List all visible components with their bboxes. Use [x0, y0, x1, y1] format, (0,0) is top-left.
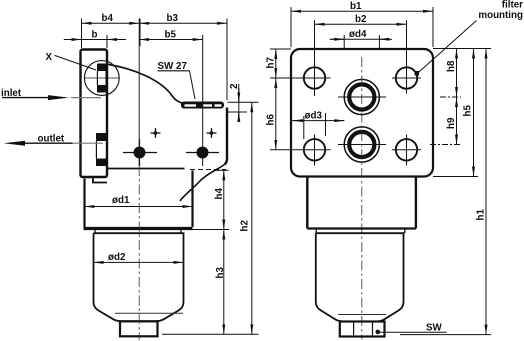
vertical centerline right view: [361, 57, 363, 340]
svg-text:mounting: mounting: [478, 10, 523, 21]
filter head left edge: [83, 179, 85, 228]
dimension b2: [314, 20, 316, 96]
neck ring right view: [316, 230, 405, 234]
drain plug (side view): [120, 321, 158, 336]
body bottom edge: [107, 168, 185, 170]
outlet port boss (hatched): [96, 133, 107, 141]
svg-text:X: X: [46, 52, 53, 63]
dimension h8: [456, 49, 458, 98]
svg-text:ød3: ød3: [305, 111, 323, 122]
body transition S-curve: [180, 165, 225, 202]
svg-text:h6: h6: [266, 114, 277, 126]
svg-text:filter: filter: [502, 0, 523, 11]
bolt hole 2: [197, 147, 209, 159]
svg-text:h7: h7: [266, 57, 277, 69]
bottom reference line: [162, 333, 259, 335]
leader X: [55, 55, 96, 70]
svg-text:h4: h4: [214, 188, 225, 200]
bolt hole 1: [134, 147, 146, 159]
dimension b1: [290, 7, 292, 47]
dimension b5: [202, 35, 204, 166]
bowl inner bottom line: [115, 312, 183, 314]
svg-text:h9: h9: [446, 117, 457, 129]
svg-text:b5: b5: [165, 30, 177, 41]
svg-text:b1: b1: [350, 1, 362, 12]
inlet arrow: [2, 97, 50, 99]
svg-text:b4: b4: [102, 13, 114, 24]
svg-text:h8: h8: [446, 60, 457, 72]
bowl outline: [94, 233, 184, 321]
hex cap SW27 (edge view, black bar with slots): [181, 102, 224, 109]
dimension h2: [251, 102, 253, 334]
filter head bottom bar: [84, 227, 193, 230]
corner hole bottom-left: [304, 139, 325, 160]
svg-text:ød4: ød4: [349, 29, 367, 40]
dimension h6: [270, 149, 331, 151]
dimension b4: [81, 19, 83, 49]
port 2 (lower): [344, 127, 379, 162]
svg-text:ød2: ød2: [108, 252, 126, 263]
mounting plate (side view): [81, 50, 108, 178]
body block below plate: [306, 177, 308, 229]
inlet port boss (hatched): [97, 64, 107, 72]
neck ring: [95, 229, 181, 234]
dimension b: [106, 35, 108, 48]
svg-text:h1: h1: [476, 209, 487, 221]
dimension h3: [223, 230, 225, 335]
dimension h9: [456, 97, 458, 145]
svg-text:2: 2: [229, 83, 240, 89]
dimension h5: [433, 176, 478, 178]
dimension 2: [228, 101, 259, 103]
corner hole bottom-right: [396, 139, 417, 160]
mounting flange plate (front view): [291, 49, 433, 177]
dimension b3: [226, 19, 228, 101]
dimension h7: [270, 48, 291, 50]
svg-text:h5: h5: [463, 105, 474, 117]
svg-text:h2: h2: [240, 220, 251, 232]
tooling point 2: [207, 128, 217, 138]
svg-text:b: b: [92, 30, 98, 41]
corner hole top-left: [304, 67, 325, 88]
tooling point 1: [151, 128, 161, 138]
outlet arrow: [4, 141, 26, 146]
body top curve: [106, 64, 183, 103]
detail circle X: [84, 61, 119, 96]
filter head right edge: [191, 171, 193, 228]
center line (filter axis): [138, 19, 140, 167]
svg-text:ød1: ød1: [112, 195, 130, 206]
svg-text:b2: b2: [355, 14, 367, 25]
dimension ød4: [343, 35, 345, 49]
bowl right view: [316, 233, 404, 321]
svg-text:h3: h3: [215, 267, 226, 279]
svg-text:b3: b3: [167, 13, 179, 24]
dimension h4: [214, 169, 229, 171]
dimension h1: [433, 48, 491, 50]
bowl inner bottom line right view: [338, 314, 386, 316]
corner hole top-right: [396, 67, 417, 88]
port center extension lines: [440, 96, 461, 98]
drain plug (front view): [340, 322, 385, 337]
hidden edge (dashed): [190, 169, 226, 171]
plate bottom step: [93, 177, 107, 183]
body right edge: [225, 108, 228, 165]
port 1 (upper): [344, 79, 379, 114]
